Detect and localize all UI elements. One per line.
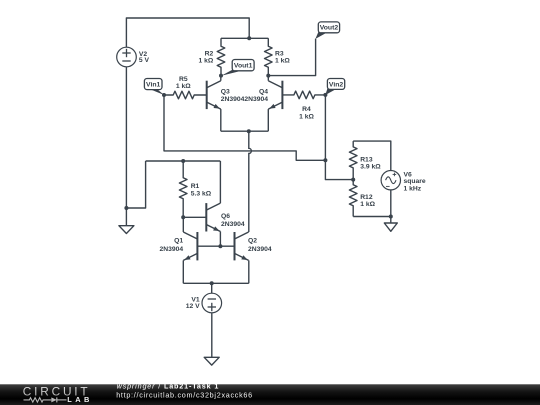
svg-text:Q2: Q2: [248, 238, 257, 245]
svg-text:2N3904: 2N3904: [160, 246, 184, 253]
svg-text:1 kHz: 1 kHz: [404, 186, 422, 193]
svg-text:Q3: Q3: [221, 89, 230, 96]
svg-text:wspringer / Lab21-Task 1: wspringer / Lab21-Task 1: [117, 382, 220, 391]
svg-text:square: square: [404, 178, 426, 185]
svg-text:R13: R13: [360, 156, 373, 163]
svg-text:5.3 kΩ: 5.3 kΩ: [191, 191, 212, 198]
svg-text:http://circuitlab.com/c32bj2xa: http://circuitlab.com/c32bj2xacck66: [116, 390, 253, 399]
svg-text:12 V: 12 V: [186, 303, 200, 310]
svg-text:Q6: Q6: [221, 213, 230, 220]
svg-text:1 kΩ: 1 kΩ: [275, 58, 290, 65]
svg-text:1 kΩ: 1 kΩ: [199, 58, 214, 65]
svg-text:2N3904: 2N3904: [248, 246, 272, 253]
svg-text:Vout1: Vout1: [234, 63, 253, 70]
svg-text:1 kΩ: 1 kΩ: [360, 201, 375, 208]
svg-text:1 kΩ: 1 kΩ: [176, 83, 191, 90]
svg-text:Vin2: Vin2: [329, 81, 344, 88]
svg-text:2N3904: 2N3904: [221, 221, 245, 228]
svg-text:Vin1: Vin1: [146, 82, 161, 89]
svg-text:R4: R4: [302, 106, 311, 113]
svg-text:Q1: Q1: [174, 238, 183, 245]
svg-text:2N3904: 2N3904: [244, 96, 268, 103]
svg-text:R1: R1: [191, 183, 200, 190]
svg-text:Q4: Q4: [259, 89, 268, 96]
svg-text:Vout2: Vout2: [320, 25, 339, 32]
svg-text:1 kΩ: 1 kΩ: [299, 113, 314, 120]
svg-text:5 V: 5 V: [139, 57, 150, 64]
svg-text:3.9 kΩ: 3.9 kΩ: [360, 164, 381, 171]
svg-text:LAB: LAB: [67, 395, 89, 404]
svg-text:2N3904: 2N3904: [221, 96, 245, 103]
svg-text:R12: R12: [360, 194, 373, 201]
